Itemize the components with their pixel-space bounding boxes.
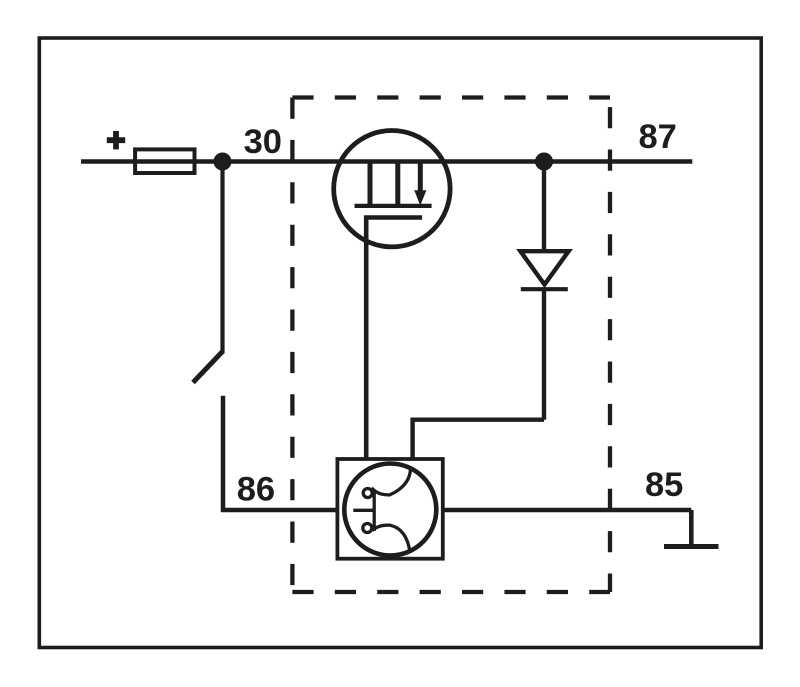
svg-text:30: 30 — [244, 123, 282, 161]
svg-text:86: 86 — [237, 471, 275, 509]
svg-text:87: 87 — [639, 118, 677, 156]
svg-text:85: 85 — [645, 466, 683, 504]
